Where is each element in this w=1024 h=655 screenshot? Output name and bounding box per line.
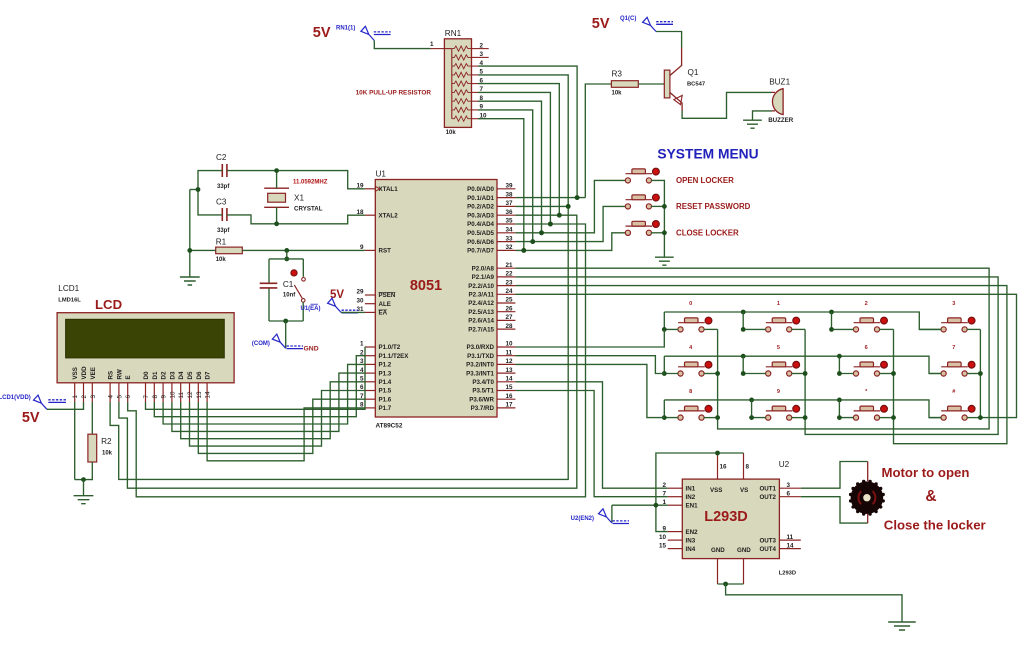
- svg-text:PSEN: PSEN: [379, 292, 396, 299]
- svg-text:VS: VS: [740, 487, 748, 494]
- wire key 8 left drop: [664, 400, 678, 418]
- motor: [849, 480, 885, 516]
- svg-text:39: 39: [506, 183, 514, 190]
- svg-text:P2.3/A11: P2.3/A11: [469, 292, 495, 299]
- svg-text:U1(EA): U1(EA): [301, 306, 321, 312]
- U1 pin 39 P0.0/AD0: [467, 183, 515, 194]
- keypad row 2 bus: [664, 356, 943, 373]
- U1 pin 9 RST: [360, 244, 391, 255]
- wire key 0 left drop: [664, 312, 678, 329]
- svg-text:P2.6/A14: P2.6/A14: [468, 318, 494, 325]
- svg-text:P3.2/INT0: P3.2/INT0: [466, 362, 494, 369]
- svg-text:6: 6: [787, 490, 791, 497]
- wire RN1 pin 4 to P0.1: [478, 66, 577, 198]
- junction RST C1: [284, 248, 289, 253]
- wire LCD D5 to P1.5: [190, 391, 365, 447]
- keypad row 1 bus: [664, 312, 943, 329]
- svg-text:P2.0/A8: P2.0/A8: [472, 265, 495, 272]
- wire C1 bottom rail: [269, 320, 303, 322]
- svg-text:L293D: L293D: [779, 571, 796, 577]
- wire P3.5 to U2 IN2: [515, 391, 667, 497]
- IC U2 L293D body: [682, 479, 779, 558]
- keypad button 4: [678, 361, 712, 376]
- svg-text:15: 15: [659, 542, 667, 549]
- svg-text:11: 11: [787, 534, 794, 541]
- junction C1 gnd: [283, 319, 288, 324]
- svg-text:RN1(1): RN1(1): [336, 26, 355, 32]
- keypad row 3 bus junctions: [749, 398, 842, 403]
- U1 pin 28 P2.7/A15: [468, 323, 515, 334]
- wire OUT2 to motor: [801, 497, 868, 523]
- svg-text:12: 12: [506, 358, 514, 365]
- svg-text:8051: 8051: [410, 278, 442, 294]
- svg-text:D5: D5: [187, 371, 194, 379]
- wire RN1 pin 6 to P0.3: [478, 84, 559, 216]
- svg-text:P0.5/AD5: P0.5/AD5: [467, 230, 494, 237]
- junction pullup OPEN LOCKER: [539, 230, 544, 235]
- svg-text:10k: 10k: [216, 257, 227, 263]
- keypad column C wire to P2.2: [515, 286, 1007, 444]
- wire C2 C3 left join: [198, 171, 222, 215]
- U1 pin 19 XTAL1: [356, 183, 398, 194]
- svg-text:X1: X1: [294, 194, 304, 203]
- svg-text:D3: D3: [169, 371, 176, 379]
- wire key 6 left drop: [839, 356, 853, 373]
- svg-text:P0.4/AD4: P0.4/AD4: [467, 221, 494, 228]
- wire RN1 pin 5 to P0.2: [478, 75, 568, 207]
- keypad column A wire to P2.0: [515, 268, 989, 429]
- U1 pin 1 P1.0/T2: [360, 341, 401, 352]
- svg-text:16: 16: [506, 393, 514, 400]
- wire Q1 emitter to buzzer: [682, 92, 771, 118]
- svg-text:D0: D0: [143, 371, 150, 379]
- svg-text:10K PULL-UP RESISTOR: 10K PULL-UP RESISTOR: [356, 90, 432, 97]
- svg-text:VSS: VSS: [710, 487, 722, 494]
- junction R1 left ground rail: [187, 248, 192, 253]
- svg-text:D7: D7: [205, 371, 212, 379]
- svg-text:BUZZER: BUZZER: [768, 117, 794, 124]
- wire key 9 left drop: [752, 400, 766, 418]
- svg-text:VSS: VSS: [72, 367, 79, 379]
- junction P0.2: [566, 204, 571, 209]
- U1 pin 27 P2.6/A14: [468, 314, 515, 325]
- svg-text:LCD: LCD: [95, 297, 122, 312]
- U2 pin 2 IN1: [662, 482, 695, 493]
- U2 pin 16 VSS: [717, 453, 719, 479]
- RN1 common bus: [444, 48, 451, 50]
- svg-text:4: 4: [108, 395, 115, 399]
- wire C1 bottom: [268, 289, 270, 322]
- svg-text:U2: U2: [779, 460, 790, 469]
- keypad button 5: [766, 361, 800, 376]
- svg-text:10k: 10k: [612, 91, 623, 97]
- svg-text:P1.2: P1.2: [379, 362, 392, 369]
- wire P3.1 to keypad row 2: [515, 356, 664, 374]
- svg-text:P1.4: P1.4: [379, 379, 392, 386]
- U1 pin 31 EA: [356, 306, 387, 317]
- svg-text:32: 32: [506, 244, 514, 251]
- U1 pin 32 P0.7/AD7: [467, 244, 515, 255]
- RN1 pin 10: [472, 118, 479, 120]
- wire RN1 pin 8 to P0.5: [478, 101, 542, 233]
- svg-text:GND: GND: [711, 547, 725, 554]
- LCD screen: [66, 319, 225, 358]
- U1 pin 4 P1.3: [360, 367, 392, 378]
- U2 pin 11 OUT3: [759, 534, 800, 545]
- svg-text:13: 13: [196, 391, 203, 399]
- svg-text:10: 10: [169, 391, 176, 399]
- wire R2 to ground rail: [75, 462, 93, 480]
- keypad column D wire to P2.3: [979, 329, 981, 417]
- svg-text:5V: 5V: [22, 410, 40, 426]
- svg-text:OUT3: OUT3: [759, 537, 776, 544]
- buzzer BUZ1: [772, 89, 784, 115]
- wire EA: [341, 311, 365, 313]
- svg-text:RS: RS: [108, 371, 115, 380]
- switch top contact wire: [302, 259, 304, 277]
- svg-text:P3.1/TXD: P3.1/TXD: [467, 353, 494, 360]
- svg-text:8: 8: [689, 389, 692, 395]
- wire LCD RS to P0.2: [110, 206, 568, 479]
- svg-text:28: 28: [506, 323, 514, 330]
- wire 5V to RN1 pin1: [374, 41, 430, 49]
- svg-text:VDD: VDD: [81, 366, 88, 380]
- U1 pin 6 P1.5: [360, 384, 392, 395]
- svg-text:C3: C3: [216, 198, 227, 207]
- U1 pin 37 P0.2/AD2: [467, 200, 515, 211]
- svg-text:8: 8: [152, 395, 159, 399]
- junction crystal bottom: [274, 221, 279, 226]
- U2 pin 15 IN4: [659, 542, 696, 553]
- junction P0.3: [557, 213, 562, 218]
- keypad button 9: [766, 405, 800, 420]
- svg-text:Close the locker: Close the locker: [884, 518, 986, 533]
- svg-text:P2.7/A15: P2.7/A15: [468, 326, 494, 333]
- ground crystal caps: [180, 277, 200, 285]
- svg-text:IN2: IN2: [686, 494, 696, 501]
- svg-text:6: 6: [125, 395, 132, 399]
- wire key 1 left drop: [743, 312, 766, 329]
- U1 pin 2 P1.1/T2EX: [360, 349, 409, 360]
- svg-text:22: 22: [506, 271, 514, 278]
- wire key # left: [929, 417, 941, 419]
- svg-text:P2.4/A12: P2.4/A12: [468, 300, 494, 307]
- svg-text:10k: 10k: [446, 130, 457, 136]
- wire LCD D3 to P1.3: [172, 373, 365, 431]
- U1 pin 33 P0.6/AD6: [467, 235, 515, 246]
- switch bottom wire: [302, 302, 304, 321]
- RN1 pins 2,3 stubs: [478, 48, 489, 50]
- svg-text:P2.1/A9: P2.1/A9: [472, 274, 495, 281]
- wire C2 to XTAL1: [227, 171, 365, 189]
- svg-text:U1: U1: [376, 170, 387, 179]
- svg-text:1: 1: [72, 395, 79, 399]
- RN1 pin 8: [472, 100, 479, 102]
- ground LCD: [74, 496, 94, 504]
- svg-text:P0.3/AD3: P0.3/AD3: [467, 212, 494, 219]
- svg-text:9: 9: [777, 389, 780, 395]
- svg-text:2: 2: [81, 395, 88, 399]
- transistor Q1: [664, 48, 682, 111]
- svg-text:3: 3: [952, 301, 955, 307]
- U1 pin 30 ALE: [356, 297, 390, 308]
- junction crystal top: [274, 168, 279, 173]
- svg-text:29: 29: [356, 289, 364, 296]
- crystal X1: [264, 188, 289, 207]
- svg-text:&: &: [925, 488, 936, 505]
- svg-text:RESET PASSWORD: RESET PASSWORD: [676, 202, 751, 211]
- keypad row 1 contact junctions: [662, 327, 834, 332]
- keypad button 7: [941, 361, 975, 376]
- svg-text:XTAL2: XTAL2: [379, 212, 399, 219]
- wire key 4 left drop: [664, 356, 678, 373]
- keypad row 3 bus: [664, 400, 943, 418]
- svg-text:IN3: IN3: [686, 537, 696, 544]
- wire key 7 right: [967, 373, 981, 375]
- svg-text:OUT4: OUT4: [759, 546, 776, 553]
- push button RESET PASSWORD: [625, 194, 659, 209]
- wire key * left drop: [839, 400, 853, 418]
- junction P0.1: [575, 195, 580, 200]
- svg-text:5V: 5V: [592, 16, 610, 32]
- wire key 2 left drop: [832, 312, 854, 329]
- svg-text:D4: D4: [178, 371, 185, 379]
- wire key 5 left drop: [743, 356, 766, 373]
- svg-text:37: 37: [506, 200, 514, 207]
- U2 pin 3 OUT1: [759, 482, 800, 493]
- svg-text:P1.1/T2EX: P1.1/T2EX: [379, 353, 410, 360]
- RN1 resistor zigzags: [452, 46, 472, 121]
- svg-text:3: 3: [90, 395, 97, 399]
- svg-text:6: 6: [865, 345, 868, 351]
- svg-text:Q1(C): Q1(C): [620, 16, 636, 22]
- wire LCD D0 to P1.0: [146, 347, 366, 409]
- RN1 pin 4: [472, 65, 479, 67]
- wire R3 to P0.1 vertical: [585, 84, 611, 198]
- U1 pin 25 P2.4/A12: [468, 297, 515, 308]
- svg-text:3: 3: [787, 482, 791, 489]
- svg-text:IN4: IN4: [686, 546, 696, 553]
- svg-text:P1.5: P1.5: [379, 388, 392, 395]
- svg-text:OPEN LOCKER: OPEN LOCKER: [676, 176, 734, 185]
- svg-text:P3.4/T0: P3.4/T0: [472, 379, 494, 386]
- resistor R2: [88, 434, 97, 462]
- svg-text:EA: EA: [379, 310, 388, 317]
- keypad button 8: [678, 405, 712, 420]
- svg-text:LMD16L: LMD16L: [58, 298, 81, 304]
- svg-text:R2: R2: [101, 437, 112, 446]
- U1 pin 8 P1.7: [360, 402, 392, 413]
- keypad row 2 contact junctions: [662, 371, 842, 376]
- svg-text:10: 10: [506, 341, 514, 348]
- RN1 pin 5: [472, 74, 479, 76]
- wire crystal to C2 wire: [276, 171, 278, 189]
- wire key 0 right: [704, 328, 718, 330]
- motor leads: [867, 462, 869, 524]
- svg-text:8: 8: [746, 464, 750, 471]
- wire P0 row to OPEN LOCKER button: [515, 180, 625, 232]
- svg-text:27: 27: [506, 314, 514, 321]
- U1 pin 22 P2.1/A9: [472, 271, 516, 282]
- svg-text:P3.6/WR: P3.6/WR: [469, 396, 494, 403]
- junction caps left: [196, 187, 201, 192]
- svg-text:11.0592MHZ: 11.0592MHZ: [293, 180, 328, 186]
- svg-text:P3.3/INT1: P3.3/INT1: [466, 370, 494, 377]
- U1 pin 10 P3.0/RXD: [466, 341, 515, 352]
- U2 pin 6 OUT2: [759, 490, 800, 501]
- svg-text:R3: R3: [612, 70, 623, 79]
- junction pullup RESET PASSWORD: [530, 239, 535, 244]
- wire key 3 left: [919, 328, 941, 330]
- svg-text:13: 13: [506, 367, 514, 374]
- U1 pin 14 P3.4/T0: [472, 376, 515, 387]
- wire caps to ground rail: [189, 190, 191, 277]
- U1 pin 15 P3.5/T1: [472, 384, 515, 395]
- wire key 4 right: [704, 373, 718, 375]
- svg-text:GND: GND: [737, 547, 751, 554]
- svg-text:VEE: VEE: [90, 367, 97, 379]
- U1 pin 3 P1.2: [360, 358, 392, 369]
- svg-text:1: 1: [777, 301, 780, 307]
- keypad button 3: [941, 317, 975, 332]
- wire LCD D1 to P1.1: [154, 356, 365, 417]
- U1 pin 23 P2.2/A10: [468, 279, 515, 290]
- wire R3 to Q1 base: [638, 83, 664, 85]
- wire key 1 right: [792, 328, 806, 330]
- wire P0 row to CLOSE LOCKER button: [515, 233, 625, 251]
- reset switch: [291, 270, 305, 302]
- resistor network RN1 body: [444, 39, 471, 128]
- RN1 pin 7: [472, 91, 479, 93]
- U1 pin 17 P3.7/RD: [471, 402, 516, 413]
- capacitor C3: [222, 208, 227, 221]
- svg-text:15: 15: [506, 384, 514, 391]
- wire LCD E to P0.4: [128, 224, 586, 497]
- U1 pin 16 P3.6/WR: [469, 393, 515, 404]
- svg-text:LCD1(VDD): LCD1(VDD): [0, 395, 31, 401]
- U2 pin 14 OUT4: [759, 542, 800, 553]
- svg-text:CRYSTAL: CRYSTAL: [294, 206, 323, 213]
- keypad button 6: [853, 361, 887, 376]
- svg-text:16: 16: [720, 464, 728, 471]
- RN1 pin 9: [472, 109, 479, 111]
- svg-text:P2.2/A10: P2.2/A10: [468, 283, 494, 290]
- svg-text:P1.0/T2: P1.0/T2: [379, 344, 401, 351]
- wire 5V to Q1 collector: [656, 32, 682, 48]
- svg-text:1: 1: [360, 341, 364, 348]
- svg-text:P0.0/AD0: P0.0/AD0: [467, 186, 494, 193]
- svg-text:P0.2/AD2: P0.2/AD2: [467, 204, 494, 211]
- wire P0.1 row: [515, 197, 585, 199]
- wire key * right: [879, 417, 893, 419]
- wire to GND terminal: [285, 321, 287, 348]
- keypad column junctions: [715, 371, 983, 420]
- svg-text:ALE: ALE: [379, 301, 391, 308]
- svg-text:26: 26: [506, 305, 514, 312]
- svg-text:LCD1: LCD1: [58, 284, 79, 293]
- wire P3.2 to keypad row 3: [515, 364, 664, 417]
- wire buzzer pin2 to ground: [753, 111, 773, 120]
- LCD1 display body: [57, 313, 234, 383]
- wire P3.4 to U2 IN1: [515, 382, 667, 488]
- wire LCD RW to P0.3: [119, 215, 577, 488]
- svg-text:BC547: BC547: [687, 82, 705, 88]
- wire RN1 pin 9 to P0.6: [478, 110, 533, 242]
- LCD pins: [72, 366, 211, 402]
- capacitor C2: [222, 164, 227, 177]
- wire key 3 right: [967, 328, 981, 330]
- resistor R3: [611, 81, 638, 88]
- RN1 pin 1: [431, 48, 445, 50]
- svg-text:11: 11: [506, 349, 513, 356]
- wire key 6 right: [879, 373, 893, 375]
- junction menu common: [662, 204, 667, 235]
- svg-text:P0.7/AD7: P0.7/AD7: [467, 248, 494, 255]
- U1 pin 34 P0.5/AD5: [467, 227, 515, 238]
- svg-text:P1.6: P1.6: [379, 396, 392, 403]
- keypad button #: [941, 405, 975, 420]
- wire key 8 right: [704, 417, 718, 419]
- wire OUT1 to motor: [801, 462, 868, 489]
- U1 pin 38 P0.1/AD1: [467, 191, 515, 202]
- U1 pin 12 P3.2/INT0: [466, 358, 515, 369]
- RN1 pin 6: [472, 83, 479, 85]
- U1 pin 29 PSEN: [356, 289, 395, 300]
- svg-text:23: 23: [506, 279, 514, 286]
- junction U2 VSS: [715, 451, 720, 456]
- wire P3.0 to keypad row 1: [515, 329, 664, 347]
- svg-text:P1.7: P1.7: [379, 405, 392, 412]
- wire U2 GND to ground: [718, 583, 744, 585]
- U1 pin 24 P2.3/A11: [469, 288, 516, 299]
- svg-text:CLOSE LOCKER: CLOSE LOCKER: [676, 228, 739, 237]
- svg-text:14: 14: [205, 391, 212, 399]
- wire crystal to C3 wire: [276, 207, 278, 224]
- RN1 pin 3: [472, 56, 479, 58]
- junction pullup CLOSE LOCKER: [521, 248, 526, 253]
- keypad column B wire to P2.1: [515, 277, 998, 435]
- svg-text:XTAL1: XTAL1: [379, 186, 399, 193]
- wire RST to C1 switch: [286, 250, 288, 259]
- keypad button 1: [766, 317, 800, 332]
- wire R1 to RST: [190, 249, 216, 251]
- svg-text:C2: C2: [216, 153, 227, 162]
- svg-text:P3.5/T1: P3.5/T1: [472, 388, 494, 395]
- junctions RN1 pullup on P0 rows: [521, 195, 579, 253]
- svg-text:0: 0: [689, 301, 692, 307]
- wire to LCD ground: [83, 480, 85, 496]
- svg-text:5: 5: [116, 395, 123, 399]
- svg-text:36: 36: [506, 209, 514, 216]
- svg-text:21: 21: [506, 262, 514, 269]
- wire RN1 pin 10 to P0.7: [478, 119, 524, 251]
- wire C3 to XTAL2: [227, 215, 365, 224]
- svg-text:R1: R1: [216, 238, 227, 247]
- svg-text:D2: D2: [161, 371, 168, 379]
- wire C1 top branch: [269, 258, 303, 260]
- wire P0 row to RESET PASSWORD button: [515, 206, 625, 241]
- svg-text:34: 34: [506, 227, 514, 234]
- svg-text:P3.0/RXD: P3.0/RXD: [466, 344, 494, 351]
- svg-text:5V: 5V: [313, 25, 331, 41]
- keypad row 1 bus junctions: [741, 310, 834, 315]
- junction C1 top: [284, 257, 289, 262]
- wire LCD D4 to P1.4: [181, 382, 365, 439]
- svg-text:2: 2: [865, 301, 868, 307]
- svg-text:RW: RW: [116, 369, 123, 379]
- keypad button 0: [678, 317, 712, 332]
- svg-text:38: 38: [506, 191, 514, 198]
